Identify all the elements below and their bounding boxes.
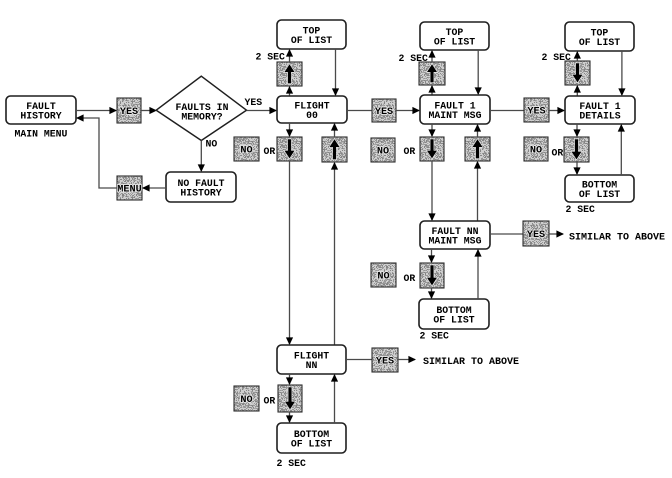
svg-text:YES: YES	[120, 107, 138, 118]
svg-text:YES: YES	[527, 107, 545, 118]
svg-text:NO: NO	[240, 395, 252, 406]
key scroll down 1	[277, 137, 302, 161]
svg-text:YES: YES	[376, 357, 394, 368]
wire NO FAULT HISTORY to MENU key	[143, 187, 166, 189]
arrowhead into FAULT 1 DETAILS bottom	[618, 124, 625, 132]
wire down key 6 to BOTTOM OF LIST 3	[289, 412, 291, 422]
svg-text:SIMILAR TO ABOVE: SIMILAR TO ABOVE	[569, 233, 665, 244]
key YES 3	[524, 98, 549, 122]
box TOP OF LIST 2	[420, 22, 489, 50]
key scroll down hold 3	[565, 61, 590, 85]
arrowhead into YES key	[109, 107, 117, 114]
arrowhead into TOP OF LIST 2	[428, 50, 435, 58]
wire decision YES to FLIGHT 00	[247, 110, 277, 112]
box FLIGHT NN	[277, 345, 346, 374]
svg-text:OR: OR	[264, 146, 276, 157]
wire FAULT 1 DETAILS down to down key 4	[576, 124, 578, 136]
svg-text:MEMORY?: MEMORY?	[181, 112, 222, 123]
svg-text:MAIN MENU: MAIN MENU	[15, 129, 68, 140]
svg-text:OR: OR	[552, 148, 564, 159]
svg-text:MAINT MSG: MAINT MSG	[429, 236, 482, 247]
svg-text:HISTORY: HISTORY	[180, 188, 221, 199]
wire up key 2b to FAULT 1 MAINT	[477, 125, 479, 137]
svg-text:2 SEC: 2 SEC	[277, 458, 307, 469]
svg-text:YES: YES	[375, 107, 393, 118]
arrowhead into FLIGHT 00 bottom	[331, 123, 338, 131]
arrowhead into down key 2	[428, 129, 435, 137]
arrowhead into FLIGHT NN bottom	[331, 374, 338, 382]
arrowhead into BOTTOM OF LIST 3	[286, 415, 293, 423]
svg-text:NO: NO	[206, 139, 218, 150]
wire YES key 3 to FAULT 1 DETAILS	[549, 110, 564, 112]
svg-text:00: 00	[306, 110, 318, 121]
arrowhead into NO FAULT HISTORY	[198, 164, 205, 172]
svg-text:DETAILS: DETAILS	[579, 111, 620, 122]
svg-text:OF LIST: OF LIST	[291, 35, 332, 46]
arrowhead into down key 1	[286, 129, 293, 137]
wire TOP OF LIST 2 return down	[477, 50, 479, 94]
arrowhead into FAULT 1 DETAILS	[557, 107, 565, 114]
svg-text:NO: NO	[377, 272, 389, 283]
svg-text:SIMILAR TO ABOVE: SIMILAR TO ABOVE	[423, 357, 519, 368]
arrowhead into up key 1b	[331, 162, 338, 170]
svg-text:OR: OR	[264, 396, 276, 407]
arrowhead into FLIGHT NN top	[286, 337, 293, 345]
key NO 3	[524, 137, 548, 161]
wire up key 2 to TOP OF LIST 2	[431, 51, 433, 62]
arrowhead into FLIGHT 00 top	[332, 88, 339, 96]
key NO 4	[371, 263, 396, 287]
svg-text:NO: NO	[530, 146, 542, 157]
wire FLIGHT 00 to up key 1	[289, 87, 291, 96]
wire down key 3 to TOP OF LIST 3	[576, 52, 578, 61]
key MENU	[117, 176, 142, 200]
wire FLIGHT NN to YES key 5	[346, 359, 372, 361]
arrowhead into up key 1	[286, 86, 293, 94]
box TOP OF LIST 3	[565, 22, 634, 51]
arrowhead into FAULT HISTORY	[76, 114, 84, 121]
wire YES key 5 out	[398, 359, 415, 361]
box FLIGHT 00	[277, 96, 347, 123]
svg-text:OF LIST: OF LIST	[579, 189, 620, 200]
arrowhead into FAULT NN bottom	[474, 249, 481, 257]
key YES 1	[117, 98, 141, 123]
arrowhead into down key 4	[573, 129, 580, 137]
arrowhead into down key 3	[574, 85, 581, 93]
key scroll down 5	[420, 263, 444, 288]
key scroll down 6	[278, 385, 302, 412]
wire down key 2 to FAULT NN	[431, 161, 433, 220]
wire down key 4 to BOTTOM OF LIST 1	[576, 162, 578, 174]
svg-text:HISTORY: HISTORY	[20, 111, 61, 122]
box FAULT NN MAINT MSG	[420, 221, 490, 249]
arrowhead into up key 2b	[474, 161, 481, 169]
key NO 1	[234, 137, 259, 161]
wire FAULT 1 MAINT down to down key 2	[431, 124, 433, 136]
wire decision NO down	[200, 141, 202, 172]
box NO FAULT HISTORY	[166, 172, 236, 202]
svg-text:YES: YES	[245, 97, 263, 108]
wire FLIGHT 00 to YES key 2	[347, 110, 372, 112]
wire TOP OF LIST 1 return down	[335, 49, 337, 95]
key NO 2	[371, 138, 395, 162]
box BOTTOM OF LIST 2	[419, 299, 489, 329]
svg-text:OR: OR	[404, 146, 416, 157]
arrowhead into FAULT 1 DETAILS top	[618, 88, 625, 96]
wire FLIGHT NN down to down key 6	[289, 374, 291, 384]
box BOTTOM OF LIST 3	[277, 423, 346, 453]
arrowhead into BOTTOM OF LIST 2	[428, 291, 435, 299]
svg-text:2 SEC: 2 SEC	[566, 204, 596, 215]
svg-text:OF LIST: OF LIST	[434, 37, 475, 48]
wire FAULT HISTORY to YES key	[76, 110, 116, 112]
svg-text:NO: NO	[377, 147, 389, 158]
key NO 5	[234, 386, 259, 411]
key scroll up 2	[465, 137, 490, 161]
arrowhead into down key 5	[428, 255, 435, 263]
wire BOTTOM OF LIST 3 return up	[334, 375, 336, 423]
wire up key 1b to FLIGHT 00	[334, 124, 336, 137]
wire FAULT 1 MAINT to up key 2	[431, 86, 433, 95]
arrowhead into TOP OF LIST 3	[574, 51, 581, 59]
arrowhead into TOP OF LIST 1	[286, 49, 293, 57]
arrowhead into FAULT 1 MAINT bottom	[474, 124, 481, 132]
arrowhead into BOTTOM OF LIST 1	[573, 167, 580, 175]
wire FAULT NN to YES key 4	[490, 233, 523, 235]
key scroll down 2	[420, 137, 444, 161]
svg-text:MENU: MENU	[117, 185, 141, 196]
box FAULT 1 MAINT MSG	[420, 95, 490, 124]
arrowhead into FAULT 1 MAINT MSG	[412, 107, 420, 114]
wire FLIGHT 00 down to down key 1	[289, 123, 291, 136]
wire down key 1 to FLIGHT NN	[289, 161, 291, 344]
box BOTTOM OF LIST 1	[565, 175, 634, 202]
arrowhead into FAULT 1 MAINT top	[475, 87, 482, 95]
wire FAULT NN down to down key 5	[431, 249, 433, 262]
svg-text:OF LIST: OF LIST	[433, 315, 474, 326]
wire FAULT 1 DETAILS to down key 3	[576, 86, 578, 96]
wire YES key to decision	[141, 110, 155, 112]
wire FAULT NN up to up key 2b	[477, 162, 479, 221]
arrowhead to SIMILAR TO ABOVE 2	[408, 356, 416, 363]
key scroll up 1	[322, 137, 347, 162]
wire down key 5 to BOTTOM OF LIST 2	[431, 288, 433, 298]
svg-text:2 SEC: 2 SEC	[256, 52, 286, 63]
svg-text:NN: NN	[306, 360, 318, 371]
arrowhead into decision	[149, 107, 157, 114]
key scroll up hold 2	[419, 62, 445, 85]
key scroll up hold 1	[277, 62, 302, 86]
svg-text:OF LIST: OF LIST	[291, 439, 332, 450]
svg-text:YES: YES	[527, 230, 545, 241]
box FAULT 1 DETAILS	[565, 96, 635, 124]
arrowhead into FAULT NN top	[428, 213, 435, 221]
arrowhead into up key 2	[428, 85, 435, 93]
key YES 4	[523, 221, 549, 246]
arrowhead into FLIGHT 00	[269, 107, 277, 114]
svg-text:OF LIST: OF LIST	[579, 37, 620, 48]
arrowhead into MENU key	[142, 184, 150, 191]
wire BOTTOM OF LIST 2 return up	[477, 250, 479, 299]
wire MENU return to FAULT HISTORY	[77, 118, 117, 188]
svg-text:MAINT MSG: MAINT MSG	[429, 110, 482, 121]
wire up key 1 to TOP OF LIST 1	[289, 50, 291, 62]
decision FAULTS IN MEMORY?	[156, 76, 246, 140]
arrowhead into down key 6	[286, 377, 293, 385]
wire YES key 4 out	[549, 233, 563, 235]
box TOP OF LIST 1	[277, 20, 346, 49]
key scroll down 4	[564, 137, 589, 162]
wire YES key 2 to FAULT 1 MAINT MSG	[396, 110, 419, 112]
wire BOTTOM OF LIST 1 return up	[620, 125, 622, 175]
wire FLIGHT NN up to up key 1b	[334, 163, 336, 345]
key YES 5	[372, 348, 398, 372]
wire FAULT 1 MAINT to YES key 3	[490, 110, 524, 112]
arrowhead to SIMILAR TO ABOVE 1	[556, 230, 564, 237]
svg-text:OR: OR	[404, 273, 416, 284]
svg-text:NO: NO	[240, 146, 252, 157]
svg-text:2 SEC: 2 SEC	[420, 331, 450, 342]
key YES 2	[372, 99, 396, 122]
box FAULT HISTORY	[6, 96, 76, 124]
wire TOP OF LIST 3 return down	[621, 51, 623, 95]
